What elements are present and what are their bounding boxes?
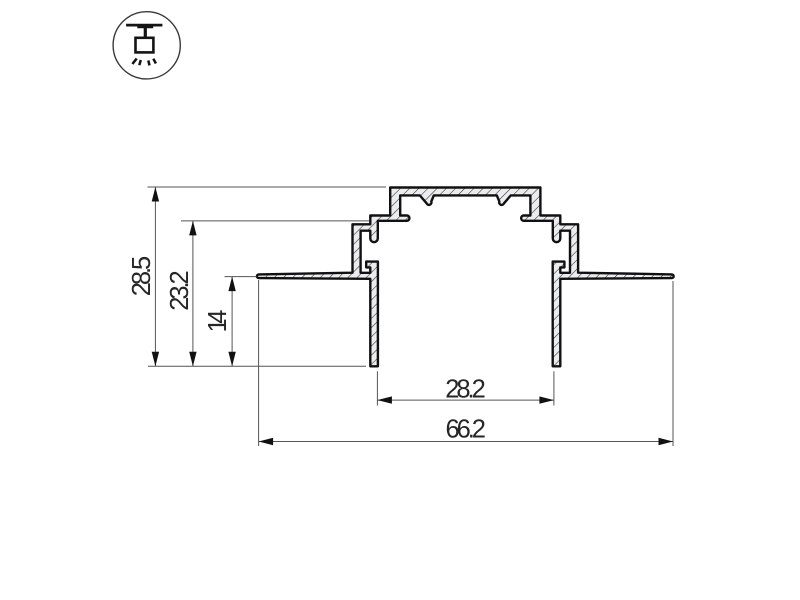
svg-text:23.2: 23.2 bbox=[166, 270, 194, 311]
ext line 28.2 right bbox=[553, 371, 555, 405]
66.2 arrows bbox=[259, 438, 274, 445]
ext line top (28.5 level) bbox=[148, 186, 387, 188]
svg-text:14: 14 bbox=[204, 310, 232, 333]
ext line 66.2 right bbox=[672, 281, 674, 446]
icon lamp square bbox=[136, 38, 154, 53]
arrowheads bbox=[152, 187, 673, 445]
svg-text:28.5: 28.5 bbox=[128, 256, 156, 297]
ext line 66.2 left bbox=[258, 280, 260, 446]
icon light rays bbox=[132, 59, 136, 65]
28.5 arrows bbox=[152, 187, 159, 202]
ext line 23.2 level bbox=[181, 220, 369, 222]
svg-text:28.2: 28.2 bbox=[445, 376, 486, 404]
14 arrows bbox=[228, 277, 235, 292]
dimension graphics bbox=[148, 187, 674, 446]
dim line 28.5 bbox=[154, 187, 156, 366]
icon stem bbox=[144, 25, 147, 38]
dim line 14 bbox=[231, 277, 233, 367]
23.2 arrows bbox=[189, 221, 196, 236]
dim line 28.2 bbox=[377, 399, 554, 401]
ext line 14 level bbox=[225, 276, 257, 278]
profile hatch fill bbox=[257, 188, 674, 367]
dimension texts bbox=[128, 256, 486, 444]
svg-text:66.2: 66.2 bbox=[445, 416, 486, 444]
baseline ext bbox=[148, 365, 366, 367]
dim line 23.2 bbox=[192, 221, 194, 366]
dim line 66.2 bbox=[259, 441, 673, 443]
ceiling-light icon circle bbox=[113, 12, 180, 79]
profile outline stroke bbox=[257, 188, 674, 367]
ext line 28.2 left bbox=[376, 371, 378, 405]
28.2 arrows bbox=[377, 396, 392, 403]
icon ceiling line bbox=[126, 25, 162, 65]
profile body fill bbox=[257, 188, 674, 367]
